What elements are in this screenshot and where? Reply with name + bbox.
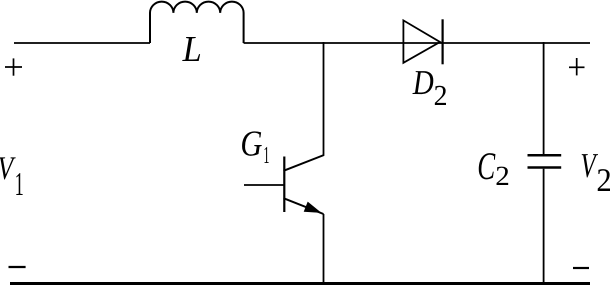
- diode D2: [403, 19, 442, 64]
- minus left: [9, 266, 26, 268]
- inductor L: [150, 2, 244, 43]
- svg-text:C: C: [477, 145, 496, 188]
- transistor G1: [244, 155, 324, 214]
- wire emitter drop: [323, 214, 325, 284]
- minus right: [573, 267, 589, 269]
- wire collector drop: [323, 42, 325, 156]
- wire top-right: [244, 42, 590, 44]
- svg-text:V: V: [0, 151, 16, 187]
- wire bottom rail: [10, 282, 590, 285]
- svg-text:1: 1: [263, 142, 269, 169]
- wire cap drop lower: [543, 169, 545, 284]
- plus left: [5, 58, 22, 75]
- svg-text:D: D: [412, 63, 434, 102]
- capacitor C2: [528, 155, 562, 167]
- wire top-left: [14, 42, 150, 44]
- svg-text:G: G: [240, 123, 262, 164]
- svg-text:L: L: [182, 28, 202, 69]
- source label V1: [0, 151, 24, 203]
- wire cap drop upper: [543, 42, 545, 154]
- svg-text:1: 1: [15, 166, 24, 203]
- output label V2: [580, 146, 610, 199]
- svg-text:2: 2: [495, 160, 510, 191]
- svg-text:2: 2: [434, 80, 448, 112]
- svg-text:2: 2: [596, 163, 610, 199]
- plus right: [569, 58, 585, 75]
